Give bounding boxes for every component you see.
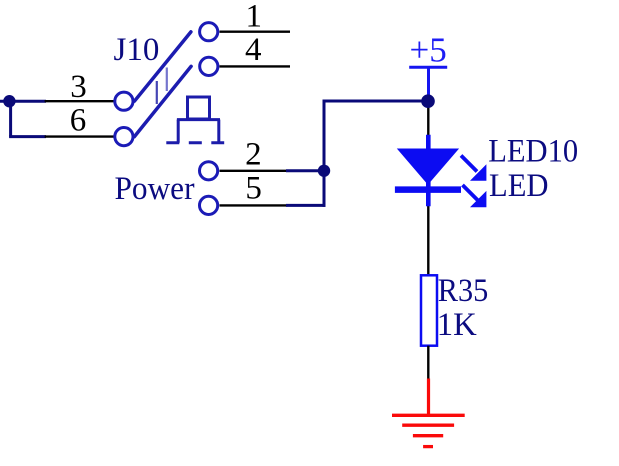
terminal circle pin 4 xyxy=(200,57,218,75)
LED top pin (black) xyxy=(427,101,429,136)
wire: top horizontal to +5 node xyxy=(323,100,429,103)
ground bar 2 xyxy=(402,424,454,427)
svg-text:6: 6 xyxy=(70,103,87,139)
svg-text:4: 4 xyxy=(245,32,262,68)
ground bar 1 xyxy=(392,414,465,417)
svg-text:1: 1 xyxy=(246,0,263,34)
diode D LED10 anode triangle xyxy=(397,149,459,185)
pin 4 of J10 (black pin line) xyxy=(220,65,291,67)
diode D LED10 cathode bar xyxy=(395,186,461,193)
resistor R35 body xyxy=(421,275,437,345)
junction node: +5 net dot xyxy=(421,94,435,108)
pin 2 of J10 (black pin line) xyxy=(220,170,288,172)
LED emission arrow 2 head xyxy=(470,191,486,207)
push button actuator cap xyxy=(188,97,210,119)
svg-text:+5: +5 xyxy=(410,30,447,69)
switch coupling tick left xyxy=(156,81,158,104)
LED emission arrow 1 head xyxy=(470,164,486,180)
wire: pin 2 to junction xyxy=(286,169,324,172)
power port +5 bar xyxy=(409,66,447,69)
ground stem (red) xyxy=(427,379,430,416)
svg-text:R35: R35 xyxy=(438,273,489,309)
pin 3 of J10 (black pin line) xyxy=(45,100,114,102)
wire: pin 5 to vertical xyxy=(286,204,326,207)
terminal circle pin 5 xyxy=(200,196,218,214)
pin 6 of J10 (black pin line) xyxy=(45,135,114,137)
diode D LED10 stem xyxy=(426,135,431,207)
terminal circle pin 6 xyxy=(115,128,133,146)
push button body top bar xyxy=(177,118,220,121)
svg-text:2: 2 xyxy=(245,137,262,173)
svg-text:LED10: LED10 xyxy=(488,134,578,170)
LED bottom pin (black) xyxy=(427,206,429,276)
wire: net stub from left edge to pin 3 xyxy=(0,100,46,103)
wire: horizontal to pin 6 xyxy=(9,135,46,138)
ground bar 4 xyxy=(423,445,433,448)
junction node: pin 2 net dot xyxy=(318,165,330,177)
terminal circle pin 3 xyxy=(115,92,133,110)
wire: middle vertical riser xyxy=(323,101,326,207)
switch lever J10 pole A (3 to 1) xyxy=(134,32,191,101)
wire: left vertical drop xyxy=(9,101,12,136)
pin 1 of J10 (black pin line) xyxy=(220,31,291,33)
svg-text:1K: 1K xyxy=(437,307,477,343)
LED emission arrow 1 shaft xyxy=(461,156,477,172)
push button right leg xyxy=(217,120,220,143)
push button dashed base xyxy=(166,141,224,144)
terminal circle pin 1 xyxy=(200,23,218,41)
push button left leg xyxy=(177,120,180,143)
switch lever J10 pole B (6 to 4) xyxy=(134,66,191,136)
ground bar 3 xyxy=(413,434,443,437)
power port +5 stem xyxy=(427,67,430,99)
svg-text:Power: Power xyxy=(115,171,195,207)
terminal circle pin 2 xyxy=(200,162,218,180)
svg-text:3: 3 xyxy=(70,69,87,105)
pin 5 of J10 (black pin line) xyxy=(220,204,288,206)
junction node: left net dot xyxy=(3,95,15,107)
svg-text:J10: J10 xyxy=(114,32,160,68)
LED emission arrow 2 shaft xyxy=(463,185,479,201)
svg-text:LED: LED xyxy=(489,168,549,204)
svg-text:5: 5 xyxy=(245,171,262,207)
switch coupling tick right xyxy=(166,68,168,92)
resistor bottom pin (black) xyxy=(427,346,429,380)
